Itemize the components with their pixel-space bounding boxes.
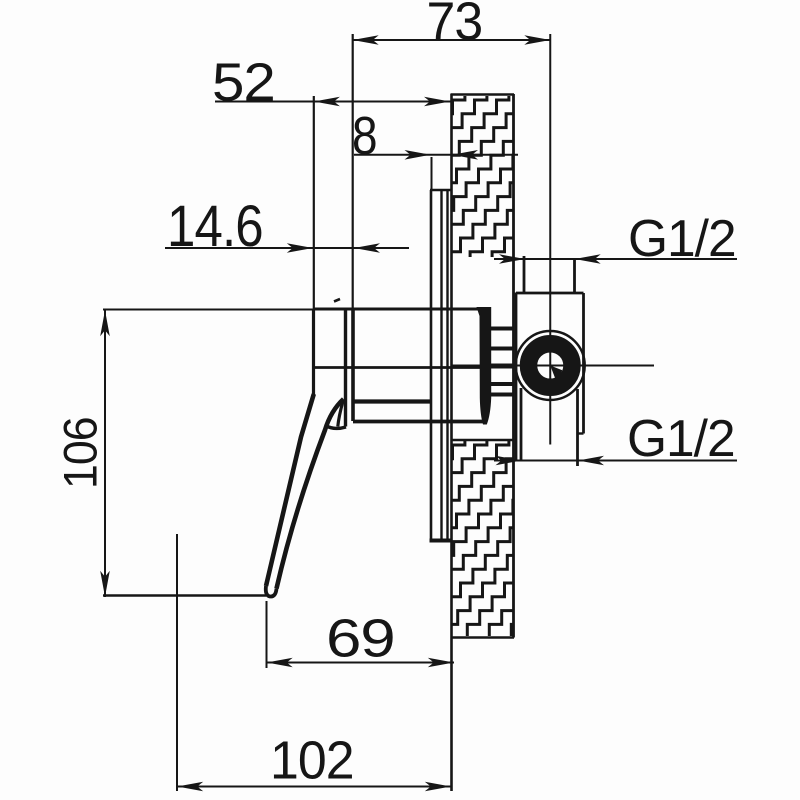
lever lip line [338,401,343,427]
bottom pipe right edge [576,389,579,466]
dim 52 right arrow [424,97,450,107]
port outer circle [516,331,585,400]
union body bottom jog [578,432,584,434]
bottom pipe left edge [520,388,523,461]
port vertical centerline / 73 right extension [549,34,551,445]
svg-text:52: 52 [212,51,275,112]
small speck above cap [334,299,340,302]
dim 102 left extension [176,534,178,791]
valve body bottom line [353,420,485,424]
wall front face line [450,94,453,791]
lower hatch patch top boundary [452,439,514,441]
union body top edge [516,292,584,295]
G1/2 top right arrow (pointing left) [575,254,601,264]
dimension 52 line [215,101,451,103]
dim 106 bottom extension [103,594,266,596]
handle cap front face [312,309,315,395]
dim 106 top arrow [100,310,110,336]
lever inner edge [277,399,344,589]
wall back (right) edge line [512,94,515,638]
bonnet ribs [489,329,514,395]
lever lip bottom curve [326,426,347,429]
dim 106 bottom arrow [100,571,110,597]
svg-text:14.6: 14.6 [167,194,263,259]
dim 52 left arrow [314,97,340,107]
body front face [351,309,355,421]
wall bottom edge [451,636,515,639]
G1/2 bottom right arrow (pointing left) [578,456,604,466]
svg-text:8: 8 [352,106,377,166]
svg-text:G1/2: G1/2 [627,409,735,467]
dim 52 left extension [313,96,315,309]
dim 73 left extension [352,34,354,309]
escutcheon plate back line [446,190,448,540]
port inner wedge [550,366,562,379]
svg-text:73: 73 [427,0,483,52]
dim 106 top extension [103,309,314,311]
valve body lower shoulder (thick) [353,399,431,403]
dim 8 left arrow (outside, pointing right) [405,150,431,160]
dimension 102 line [177,786,451,788]
cartridge bonnet (black spool) [477,307,492,425]
dim 73 left arrow [353,35,379,45]
svg-text:102: 102 [270,731,354,791]
svg-text:G1/2: G1/2 [628,209,736,267]
dimension 73 line [353,39,551,41]
escutcheon plate middle line [440,190,442,540]
dim 69 left arrow [267,658,293,668]
dim 14.6 left arrow (outside, pointing right) [287,243,313,253]
wall top edge [451,93,515,96]
lever rounded tip [266,586,277,597]
svg-text:69: 69 [326,608,395,668]
top pipe stub right edge [573,259,576,293]
dimension 14.6 line [165,247,409,249]
dimension 106 line [104,310,106,597]
svg-text:106: 106 [54,417,106,489]
dimension 8 line [354,154,518,156]
top pipe stub left edge [523,256,526,293]
dim 14.6 right arrow (outside, pointing left) [354,243,380,253]
dim 69 left extension [266,601,268,668]
valve body top line [314,308,481,311]
union body rectangle left edge [515,293,518,461]
dim 73 right arrow [524,35,550,45]
dim 8 right arrow (outside, pointing left) [452,150,478,160]
dimension G1/2 bottom line [494,460,737,462]
escutcheon plate bottom edge [430,539,453,543]
dimension 69 line [267,662,455,664]
dim 102 left arrow [177,782,203,792]
port black annulus [529,344,573,388]
G1/2 bottom left arrow (pointing right) [496,456,522,466]
valve body mid line (cap bottom) [314,366,481,369]
escutcheon plate top edge [430,189,451,191]
dim 102 right arrow [425,782,451,792]
union body rectangle right edge [582,293,585,434]
dim 69 right arrow [428,658,454,668]
escutcheon plate front face [430,190,433,540]
port horizontal centerline [453,365,655,367]
G1/2 top left arrow (pointing right) [499,254,525,264]
dim 8 short extension [431,157,433,190]
lever outer edge [266,394,314,586]
dimension G1/2 top line [494,258,737,260]
handle cap rear face [344,309,347,427]
